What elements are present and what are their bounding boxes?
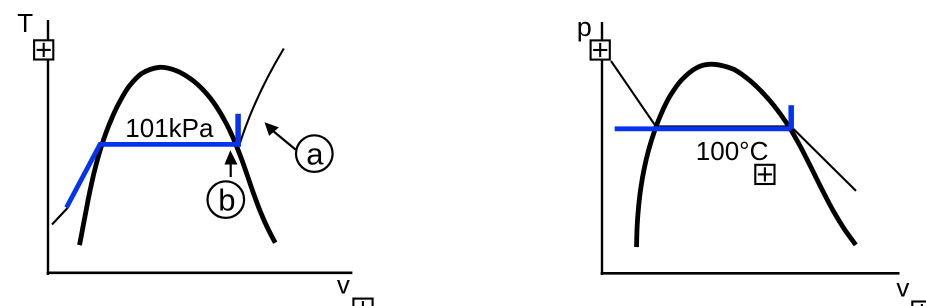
v axis (horizontal) — [601, 272, 900, 275]
svg-text:v: v — [896, 273, 909, 303]
blue vertical tick at saturated vapor point — [235, 114, 241, 145]
circle b — [208, 181, 245, 218]
T axis (vertical) — [47, 20, 49, 275]
thin isotherm segment inside dome (horizontal) — [656, 125, 792, 127]
svg-text:100°C: 100°C — [696, 136, 769, 166]
saturation dome (left) — [80, 67, 276, 245]
thin isobar line (superheated vapor, upper-right) — [239, 49, 284, 147]
plus-box below v axis (partially visible) — [353, 299, 372, 306]
saturation dome (right) — [637, 64, 856, 247]
svg-text:a: a — [306, 137, 324, 172]
arrow b (points at saturated vapor point) — [225, 150, 238, 177]
thin isotherm segment (compressed liquid), from box corner to dome — [611, 61, 656, 127]
plus-box on T axis — [34, 40, 53, 59]
svg-text:T: T — [17, 8, 33, 38]
svg-text:101kPa: 101kPa — [125, 113, 214, 143]
svg-text:v: v — [337, 270, 350, 300]
plus-box on p axis — [591, 40, 610, 59]
svg-text:p: p — [577, 12, 592, 42]
p axis (vertical) — [601, 22, 603, 275]
arrow a (points at thin isobar) — [265, 122, 296, 149]
circle a — [296, 135, 333, 172]
v axis (horizontal) — [47, 271, 353, 274]
thin isobar continuation (compressed liquid, lower-left) — [52, 208, 68, 225]
blue isobar polyline (101 kPa) — [67, 144, 242, 207]
blue vertical tick at saturated vapor point — [788, 105, 794, 129]
plus-box below 100°C label — [755, 165, 774, 184]
blue isobar line (horizontal) — [615, 126, 792, 131]
svg-text:b: b — [218, 183, 235, 218]
plus-box at bottom-right corner (partially visible) — [912, 302, 926, 306]
thin isotherm segment (superheated vapor) — [793, 129, 856, 191]
